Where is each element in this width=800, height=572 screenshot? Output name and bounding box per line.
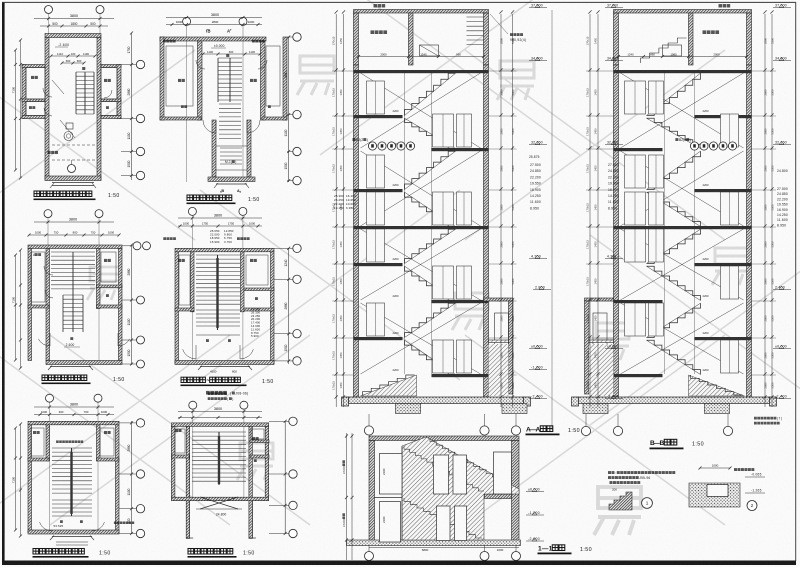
- plan1 entry steps: [50, 183, 96, 189]
- detail 1 stepped threshold: [609, 488, 652, 511]
- plan1 stair shaft walls: [45, 34, 101, 181]
- plan3 top dimensions: [28, 218, 121, 237]
- plan2 lower flight and door label: [216, 146, 247, 170]
- secBB main shaft walls: [614, 65, 752, 397]
- plan1 door swings: [43, 80, 112, 138]
- section 1-1 title: [538, 545, 592, 554]
- plan6 rooms: [175, 429, 264, 462]
- secBB left dimension chain: [586, 10, 600, 407]
- axis bubbles below section B-B: [581, 414, 732, 436]
- plan6 machine room note: [208, 392, 234, 401]
- plan2 entry steps: [214, 183, 249, 193]
- secAA stair flight cascade: [361, 70, 481, 396]
- plan6 top dimensions: [178, 407, 262, 419]
- sheet border top line: [2, 1, 796, 3]
- plan3 right axis bubbles: [122, 242, 151, 368]
- detail 2 floor pit: [689, 464, 765, 511]
- plan4 right dimension chain: [284, 247, 290, 364]
- plan2 axis bubbles top and axis lines: [183, 17, 247, 182]
- plan2 stair flights: [218, 54, 242, 138]
- elevation marks right of section A-A: [529, 4, 551, 399]
- plan6 title: [188, 549, 255, 558]
- plan2 right dimension chain: [284, 36, 290, 183]
- plan3 title: [42, 375, 125, 384]
- plan4 top dimensions: [178, 214, 262, 228]
- sec11 bottom slab: [347, 540, 521, 546]
- level stack left of section A-A: [334, 194, 356, 210]
- plan4 walls: [175, 248, 274, 364]
- section A-A title: [526, 426, 580, 435]
- plan1 right rooms: [101, 65, 121, 119]
- plan5 left dimension chain: [12, 423, 23, 538]
- plan2 side room interiors: [166, 46, 280, 106]
- plan3 right dimension chain: [127, 244, 133, 366]
- plan4 axis bubbles top and axis lines: [188, 207, 247, 364]
- plan4 entry line: [198, 366, 252, 374]
- secBB ground slab and footings: [572, 397, 777, 414]
- plan1 room labels: [29, 76, 111, 109]
- sec11 left dimension chain: [342, 433, 354, 560]
- plan1 sump pit: [48, 123, 96, 160]
- plan5 axis bubbles top and axis lines: [46, 394, 103, 534]
- plan1 right dimension chain: [127, 32, 133, 181]
- plan6 right dimension chain: [284, 420, 287, 535]
- plan2 walls: [160, 37, 287, 182]
- plan1 top dimensions: [34, 14, 114, 28]
- plan4 hydrant labels and level stack: [163, 229, 249, 244]
- secAA machine room: [354, 13, 489, 65]
- plan6 axis bubbles top and axis lines: [189, 401, 248, 500]
- extension line between sections: [551, 10, 553, 430]
- plan5 walls: [28, 421, 119, 534]
- plan5 title: [33, 549, 111, 558]
- plan6 walls: [171, 423, 269, 539]
- secAA roof slab: [354, 10, 489, 14]
- secAA top label: [374, 4, 386, 7]
- secBB top label: [719, 4, 731, 7]
- plan5 entry steps: [50, 536, 94, 546]
- plan1 title: [34, 191, 120, 200]
- plan1 axis bubble 2: [68, 160, 76, 173]
- sec11 hatched stair mass: [402, 437, 519, 540]
- plan6 stair: [192, 432, 246, 485]
- plan1 stair flight: [76, 67, 94, 114]
- plan2 title: [187, 195, 260, 204]
- plan4 entry door swings: [183, 345, 254, 359]
- secAA detail bubbles row: [353, 138, 415, 150]
- sheet border bottom bar: [2, 561, 796, 566]
- secBB detail bubbles row: [675, 138, 736, 150]
- secBB lower annex: [585, 298, 614, 396]
- plan1 interior top dims: [50, 43, 97, 65]
- plan5 right axis bubbles: [114, 419, 145, 538]
- sec11 elevation marks: [526, 488, 544, 542]
- plan1 left rooms: [22, 65, 45, 119]
- leader note right of A-A machine room: [490, 14, 526, 42]
- plan2 top dimensions and section marks: [166, 13, 262, 34]
- plan4 lower landing: [196, 335, 240, 342]
- secAA main shaft walls: [354, 65, 489, 397]
- plan1 left dimension chain: [12, 39, 23, 180]
- plan4 right axis bubbles: [274, 244, 301, 365]
- sec11 doors: [380, 452, 512, 542]
- plan1 axis bubbles top and axis lines: [45, 6, 105, 181]
- plan6 bottom cross: [196, 497, 242, 517]
- secAA lower annex: [484, 298, 514, 396]
- plan5 right dimension chain: [127, 421, 133, 535]
- plan6 leg walls below: [186, 501, 256, 538]
- sec11 middle slab right: [375, 494, 512, 499]
- secBB door and window openings: [625, 81, 739, 373]
- plan3 stair flights: [51, 252, 95, 340]
- plan4 rooms: [178, 255, 268, 305]
- plan3 left dimension chain: [12, 249, 23, 370]
- sec11 bottom axis bubbles: [365, 546, 521, 561]
- sec11 bottom dimension: [369, 548, 519, 553]
- plan2 upper door swings: [196, 60, 267, 69]
- notes text block: [608, 471, 675, 484]
- plan3 rooms: [31, 252, 116, 302]
- secAA right dimension chain: [499, 10, 515, 407]
- plan3 walls: [28, 245, 122, 365]
- plan2 room labels and interior dims: [163, 40, 271, 108]
- plan3 entry steps: [48, 366, 93, 371]
- plan5 scissor stair: [52, 448, 92, 516]
- sec11 side walls: [369, 441, 519, 545]
- plan4 scissor stair flights and level stack: [196, 255, 261, 338]
- plan1 right axis bubbles: [121, 60, 145, 179]
- plan3 entry door swings: [38, 333, 129, 347]
- secAA door and window openings: [367, 81, 472, 373]
- secBB machine room: [614, 13, 752, 65]
- section B-B title: [650, 439, 704, 449]
- note right of B-B bottom: [754, 417, 782, 425]
- secBB floor and landing slabs: [586, 70, 776, 377]
- plan5 top dimensions: [34, 403, 114, 417]
- secBB right dimension chain: [763, 10, 774, 407]
- sec11 top slab: [369, 436, 519, 441]
- plan5 lower landing doors: [40, 516, 105, 531]
- plan6 right axis bubbles: [269, 417, 297, 538]
- secAA ground slab and footings: [342, 397, 531, 414]
- plan2 right axis bubbles: [287, 33, 301, 185]
- secBB roof slab: [614, 10, 752, 14]
- sheet border right line: [795, 2, 797, 561]
- secAA floor and landing slabs: [332, 70, 516, 377]
- plan3 door swings: [44, 266, 53, 298]
- elevation marks left of section B-B: [605, 4, 623, 399]
- plan4 note: [206, 391, 248, 396]
- secBB stair flight cascade: [621, 70, 745, 396]
- sheet border left bar: [2, 2, 5, 565]
- elevation marks right of section B-B: [773, 4, 791, 399]
- plan5 rooms: [31, 428, 114, 528]
- plan2 big entry door swings: [203, 120, 260, 133]
- plan3 axis bubbles top and axis lines: [44, 210, 103, 364]
- plan4 title: [181, 377, 274, 386]
- secAA left dimension chain: [332, 10, 345, 407]
- axis bubbles below section A-A: [364, 414, 520, 435]
